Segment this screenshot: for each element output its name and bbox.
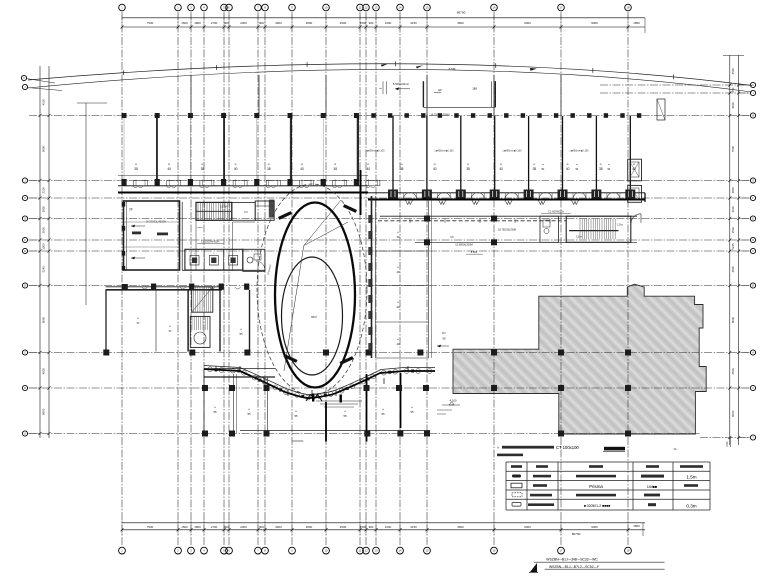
svg-text:38: 38 (400, 167, 404, 171)
rain pipe risers (156, 116, 158, 185)
svg-text:▪▪: ▪▪ (397, 301, 399, 304)
svg-text:▪▪: ▪▪ (344, 410, 346, 413)
svg-text:8000: 8000 (731, 316, 735, 323)
atrium leader lines (304, 222, 348, 246)
svg-text:▪▪: ▪▪ (600, 162, 602, 166)
title block (534, 561, 665, 563)
svg-text:D: D (752, 239, 754, 242)
svg-text:▪▪: ▪▪ (500, 162, 502, 166)
svg-text:C: C (752, 250, 754, 253)
svg-text:2100: 2100 (727, 441, 729, 447)
svg-text:9000: 9000 (524, 525, 531, 529)
svg-text:900: 900 (224, 21, 229, 25)
svg-text:86700: 86700 (572, 532, 581, 536)
svg-text:C1-800W50H: C1-800W50H (548, 210, 564, 214)
svg-text:1500: 1500 (731, 227, 735, 234)
svg-text:9000: 9000 (524, 21, 531, 25)
svg-text:H: H (24, 197, 26, 200)
svg-text:4500: 4500 (360, 525, 367, 529)
svg-text:40: 40 (566, 167, 570, 171)
svg-text:55: 55 (381, 412, 385, 416)
svg-text:40: 40 (433, 167, 437, 171)
svg-text:D: D (24, 285, 26, 288)
axis K leader bubble (21, 75, 26, 80)
atrium outer dashed ellipse (257, 184, 367, 395)
svg-text:08: 08 (443, 337, 446, 341)
svg-text:18.75G03L/450SM: 18.75G03L/450SM (146, 221, 166, 224)
svg-text:3150: 3150 (410, 21, 417, 25)
south porch bold partition walls (325, 402, 327, 442)
svg-text:▪▪: ▪▪ (295, 410, 297, 413)
svg-text:8.600: 8.600 (471, 250, 478, 254)
svg-text:1500: 1500 (181, 21, 188, 25)
svg-text:▪▪: ▪▪ (576, 164, 578, 167)
atrium door bold marks (278, 211, 292, 220)
svg-text:1500: 1500 (181, 525, 188, 529)
toilet stalls (185, 249, 243, 270)
svg-text:H: H (752, 115, 754, 118)
svg-text:2F: 2F (129, 208, 133, 212)
svg-text:3600: 3600 (457, 525, 464, 529)
svg-text:40: 40 (499, 167, 503, 171)
svg-text:38: 38 (267, 167, 271, 171)
svg-text:▪▪: ▪▪ (135, 162, 137, 166)
svg-text:▪▪: ▪▪ (411, 406, 413, 409)
svg-text:40: 40 (396, 235, 400, 239)
svg-text:6.5M: 6.5M (449, 67, 456, 71)
svg-text:2700: 2700 (211, 21, 218, 25)
svg-text:▪▪: ▪▪ (248, 408, 250, 411)
svg-text:188: 188 (472, 87, 477, 91)
svg-text:KB1P: KB1P (311, 316, 318, 319)
svg-text:▪▪: ▪▪ (397, 231, 399, 234)
svg-text:40: 40 (367, 167, 371, 171)
svg-text:▪▪: ▪▪ (533, 162, 535, 166)
svg-text:WSZBN—B1J—B7L2—SC52—F: WSZBN—B1J—B7L2—SC52—F (549, 565, 599, 569)
svg-text:▪▪: ▪▪ (633, 162, 635, 166)
svg-text:7500: 7500 (147, 21, 154, 25)
svg-text:3000: 3000 (42, 227, 46, 234)
svg-text:5245: 5245 (731, 243, 735, 250)
svg-text:4500: 4500 (42, 368, 46, 375)
svg-text:8000: 8000 (42, 316, 46, 323)
svg-text:4500: 4500 (731, 368, 735, 375)
svg-text:51: 51 (575, 167, 579, 171)
svg-text:1200: 1200 (385, 525, 392, 529)
svg-text:13.5800/L200M: 13.5800/L200M (455, 244, 472, 247)
bottom axis bubbles (119, 547, 126, 554)
svg-text:2400: 2400 (240, 21, 247, 25)
4.100 level flag (442, 404, 460, 406)
svg-text:▪▪▪▪▪▪▪: ▪▪▪▪▪▪▪ (197, 227, 203, 229)
svg-text:▪▪: ▪▪ (382, 408, 384, 411)
left axis bubbles (22, 178, 27, 183)
axis J leader bubble (22, 84, 27, 89)
svg-text:38: 38 (599, 167, 603, 171)
svg-text:▪▪: ▪▪ (214, 406, 216, 409)
svg-text:▪▪: ▪▪ (235, 162, 237, 166)
svg-text:900: 900 (259, 525, 264, 529)
svg-text:7500: 7500 (731, 145, 735, 152)
elevator shaft (192, 287, 213, 312)
svg-text:▪▪: ▪▪ (367, 162, 369, 166)
svg-text:900: 900 (369, 525, 374, 529)
column squares row A (202, 431, 208, 437)
svg-text:▪▪: ▪▪ (268, 162, 270, 166)
svg-text:7500: 7500 (147, 525, 154, 529)
svg-text:5245: 5245 (42, 266, 46, 273)
svg-text:■ 020501-2 ■■■■: ■ 020501-2 ■■■■ (584, 504, 610, 508)
svg-text:0.3m: 0.3m (686, 503, 696, 508)
svg-text:▪▪: ▪▪ (567, 162, 569, 166)
svg-text:40: 40 (234, 167, 238, 171)
svg-text:37: 37 (168, 329, 172, 333)
svg-text:38: 38 (533, 167, 537, 171)
small room left of stair (540, 216, 559, 242)
svg-text:40: 40 (396, 342, 400, 346)
svg-text:CT 100x100: CT 100x100 (556, 445, 579, 450)
roof arc (curved canopy edge) (28, 64, 752, 86)
rooftop shaft rectangle (422, 81, 424, 107)
svg-text:▪▪: ▪▪ (434, 162, 436, 166)
east corridor walls (371, 196, 373, 358)
svg-text:40: 40 (396, 305, 400, 309)
atrium main ellipse (bold) (275, 203, 355, 388)
svg-text:9000: 9000 (591, 21, 598, 25)
south porch walls (204, 368, 275, 370)
scallop ticks on south wall (215, 366, 217, 372)
spiral stair (190, 316, 210, 347)
svg-text:9000: 9000 (591, 525, 598, 529)
svg-text:3600: 3600 (457, 21, 464, 25)
svg-text:□■400mm■0.100: □■400mm■0.100 (569, 150, 589, 153)
svg-text:▪▪: ▪▪ (401, 162, 403, 166)
south curved colonnade wall (204, 369, 435, 398)
svg-text:DY: DY (442, 331, 446, 335)
left dimension band (39, 66, 41, 438)
svg-text:6.500x00mm: 6.500x00mm (393, 82, 410, 86)
svg-text:55: 55 (343, 414, 347, 418)
title flag (530, 563, 537, 572)
cable tray dashed line in corridor (378, 220, 566, 222)
right dimension band (729, 55, 731, 445)
north exterior wall - east section (stepped) (360, 170, 362, 215)
svg-text:3600: 3600 (306, 525, 313, 529)
north exterior wall - west section (118, 175, 368, 177)
svg-text:51: 51 (607, 167, 611, 171)
svg-text:55: 55 (247, 412, 251, 416)
svg-text:▪▪: ▪▪ (334, 162, 336, 166)
west mid wall band (106, 286, 222, 288)
svg-text:▪▪: ▪▪ (201, 162, 203, 166)
light bay lines (123, 118, 125, 180)
svg-text:55: 55 (294, 414, 298, 418)
small room right of stair (232, 202, 255, 220)
svg-text:▪▪: ▪▪ (397, 266, 399, 269)
top axis bubbles (119, 4, 126, 11)
svg-text:G: G (24, 218, 26, 221)
left wing shop room (124, 201, 180, 270)
svg-text:1.5m: 1.5m (686, 475, 696, 480)
svg-text:1200: 1200 (385, 21, 392, 25)
east stair exit door arc (631, 214, 641, 223)
svg-text:8600: 8600 (731, 410, 735, 417)
svg-text:2700: 2700 (211, 525, 218, 529)
svg-text:40: 40 (300, 167, 304, 171)
door sill marks below east wall (405, 200, 413, 205)
svg-text:38: 38 (134, 167, 138, 171)
svg-text:6000: 6000 (42, 145, 46, 152)
svg-text:8000: 8000 (731, 102, 735, 109)
svg-text:3900: 3900 (42, 206, 46, 213)
svg-text:18.75G03L/50M8: 18.75G03L/50M8 (430, 114, 450, 117)
svg-text:37: 37 (136, 321, 140, 325)
arc tick marks (122, 70, 124, 75)
svg-text:1850: 1850 (633, 21, 640, 25)
svg-text:C: C (24, 352, 26, 355)
entry hall walls (181, 202, 183, 270)
svg-text:▪▪: ▪▪ (169, 325, 171, 328)
svg-text:1850: 1850 (633, 524, 640, 528)
svg-text:1800: 1800 (194, 525, 201, 529)
svg-text:4500: 4500 (340, 21, 347, 25)
svg-text:38: 38 (201, 167, 205, 171)
svg-text:▪▪: ▪▪ (467, 162, 469, 166)
column squares row D/E (mid rows) (122, 284, 128, 290)
svg-text:55: 55 (239, 332, 243, 336)
svg-text:1800: 1800 (194, 21, 201, 25)
south colonnade scallops and piers (208, 367, 213, 372)
row A right dim tick (730, 438, 732, 448)
legend table (506, 461, 710, 463)
svg-text:15.3M: 15.3M (220, 206, 227, 209)
svg-text:4500: 4500 (360, 21, 367, 25)
svg-text:▪▪: ▪▪ (168, 162, 170, 166)
svg-text:1500: 1500 (42, 243, 46, 250)
main stair block (north-west) (196, 202, 232, 220)
svg-text:□■400mm■0.100: □■400mm■0.100 (434, 150, 454, 153)
svg-text:4500: 4500 (340, 525, 347, 529)
svg-text:▪▪: ▪▪ (301, 162, 303, 166)
svg-text:86700: 86700 (457, 11, 466, 15)
svg-text:132m: 132m (617, 224, 623, 227)
south entrance door posts (312, 394, 314, 402)
svg-text:A: A (497, 446, 499, 450)
corridor column squares (424, 216, 430, 222)
svg-text:3150: 3150 (410, 525, 417, 529)
right wing elevator boxes (628, 159, 642, 181)
svg-text:▪▪: ▪▪ (397, 338, 399, 341)
svg-text:3800: 3800 (731, 187, 735, 194)
svg-text:2100: 2100 (42, 187, 46, 194)
svg-text:3600: 3600 (306, 21, 313, 25)
column squares row B (202, 385, 208, 391)
svg-text:132m: 132m (576, 236, 582, 239)
svg-text:38: 38 (333, 167, 337, 171)
svg-text:8600: 8600 (42, 408, 46, 415)
svg-text:6.0: 6.0 (244, 211, 248, 214)
svg-text:900: 900 (369, 21, 374, 25)
svg-text:▪▪: ▪▪ (240, 328, 242, 331)
svg-text:4500: 4500 (731, 68, 735, 75)
left leader line to arc (77, 102, 107, 104)
svg-text:55: 55 (410, 410, 414, 414)
north colonnade column squares row (122, 113, 127, 118)
svg-text:□■400mm■0.100: □■400mm■0.100 (365, 150, 385, 153)
south entrance M door mark (306, 395, 322, 402)
inner corridor lines (232, 222, 234, 270)
note line B (497, 454, 523, 457)
svg-text:▪▪: ▪▪ (137, 317, 139, 320)
svg-text:Prisma: Prisma (589, 484, 603, 489)
svg-text:4.100: 4.100 (450, 399, 457, 403)
svg-text:3000: 3000 (731, 206, 735, 213)
svg-text:4500: 4500 (731, 266, 735, 273)
svg-text:900: 900 (259, 21, 264, 25)
svg-text:WSZBN—B1J—348—SC32—WC: WSZBN—B1J—348—SC32—WC (546, 557, 598, 561)
svg-text:38: 38 (466, 167, 470, 171)
equipment room (255, 201, 274, 220)
roof shaft box top right (657, 99, 665, 120)
south entrance steps (316, 400, 362, 402)
vertical grid lines (column axes) (121, 12, 123, 546)
svg-text:C7-1500W450H: C7-1500W450H (201, 240, 220, 244)
arc slope arrows (381, 64, 388, 67)
svg-text:2400: 2400 (240, 525, 247, 529)
column squares row C (103, 350, 109, 356)
west rooms (105, 290, 107, 352)
svg-text:3600: 3600 (275, 21, 282, 25)
svg-text:10/■■: 10/■■ (647, 484, 658, 489)
atrium inner ellipse (282, 257, 343, 375)
right axis bubbles (750, 82, 755, 87)
svg-text:900: 900 (224, 525, 229, 529)
svg-text:51: 51 (541, 167, 545, 171)
svg-text:4100: 4100 (42, 99, 46, 106)
svg-text:40: 40 (396, 270, 400, 274)
svg-text:55: 55 (213, 410, 217, 414)
top dimension band (122, 17, 645, 19)
accessible toilet room (243, 249, 265, 271)
east section door arches and columns (388, 190, 398, 199)
east stair room (566, 216, 631, 242)
svg-text:▪▪: ▪▪ (608, 164, 610, 167)
svg-text:40: 40 (167, 167, 171, 171)
corridor wall (380, 215, 637, 217)
bottom dimension band (122, 522, 645, 524)
svg-text:3600: 3600 (275, 525, 282, 529)
svg-text:□■400mm■0.100: □■400mm■0.100 (502, 150, 522, 153)
svg-text:18.75G03L/50M: 18.75G03L/50M (498, 229, 516, 232)
svg-text:▪▪: ▪▪ (542, 164, 544, 167)
svg-text:G: G (752, 180, 754, 183)
horizontal grid lines (row axes) (600, 84, 749, 86)
